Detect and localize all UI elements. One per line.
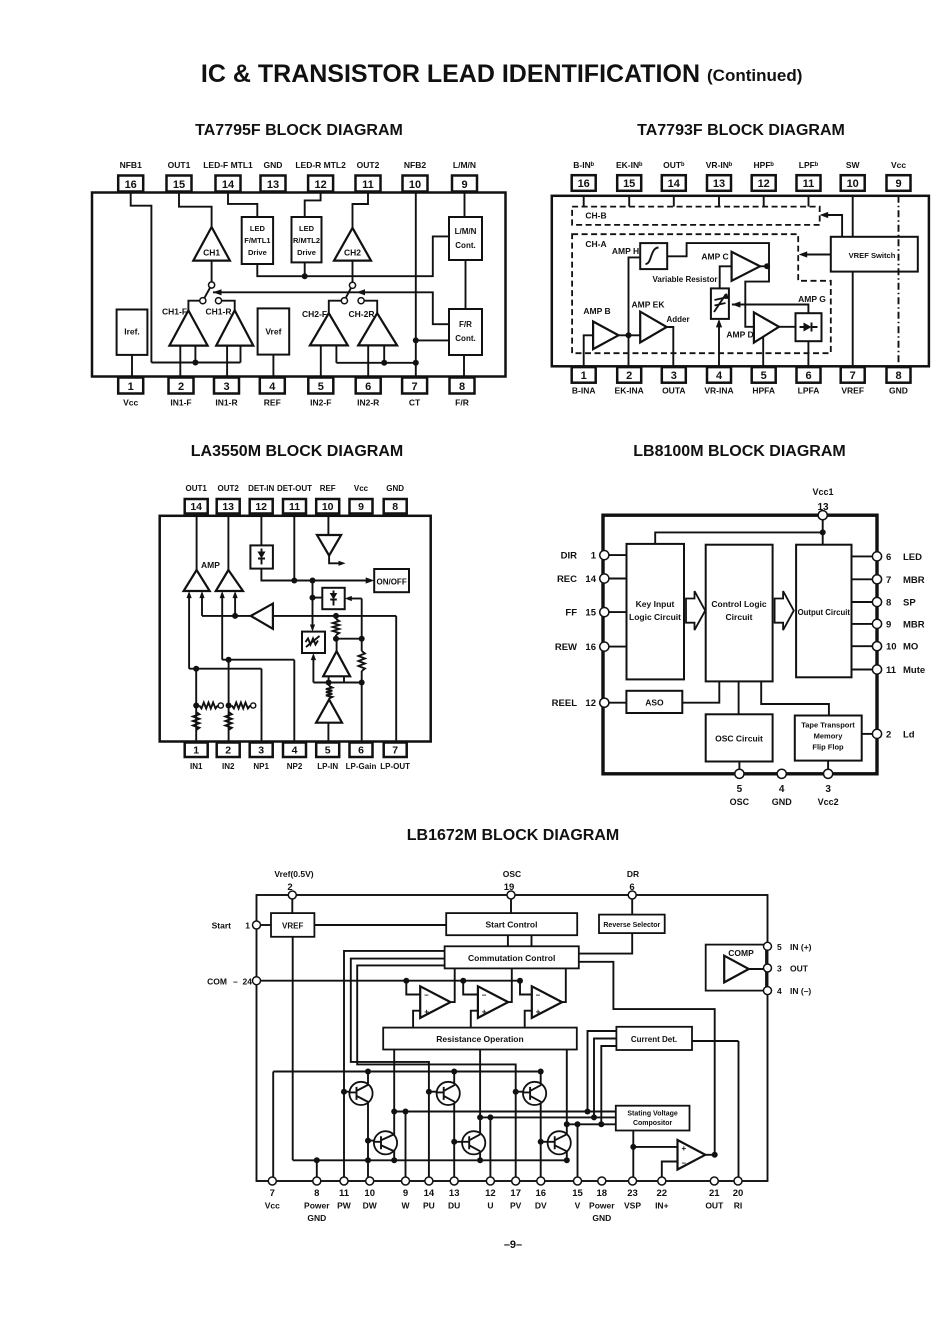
svg-text:CH1-F: CH1-F [162, 307, 187, 317]
svg-text:LED: LED [299, 224, 315, 233]
svg-text:Vcc: Vcc [891, 160, 906, 170]
wire AMP B output to AMP EK [619, 334, 641, 336]
svg-text:OUTA: OUTA [662, 386, 685, 396]
svg-text:Tape Transport: Tape Transport [801, 721, 855, 730]
wire top pin into CH-B [763, 196, 765, 207]
svg-text:OUTᵇ: OUTᵇ [663, 160, 685, 170]
wire CH2-F right input [335, 345, 337, 362]
wire op-amp W output to Commutation [451, 968, 455, 1002]
svg-text:17: 17 [510, 1188, 521, 1199]
svg-text:–: – [482, 991, 487, 1000]
svg-text:VR-INA: VR-INA [704, 386, 733, 396]
svg-text:4: 4 [269, 381, 276, 393]
amplifier AMP C [732, 252, 760, 281]
wire pin4 NP2 column [293, 660, 295, 743]
svg-text:PV: PV [510, 1201, 522, 1211]
svg-text:+: + [482, 1007, 487, 1016]
svg-text:13: 13 [449, 1188, 460, 1199]
svg-text:IN1-F: IN1-F [170, 398, 191, 408]
svg-text:5: 5 [737, 784, 743, 795]
svg-text:LED-F MTL1: LED-F MTL1 [203, 160, 253, 170]
svg-text:FF: FF [565, 608, 577, 619]
block COMP [706, 945, 766, 991]
block Resistance Operation [383, 1028, 577, 1050]
LB8100M right pin 8 SP [852, 601, 878, 603]
wire pin13 to AMP2 [227, 514, 229, 571]
svg-text:Drive: Drive [248, 248, 267, 257]
svg-text:IN2-F: IN2-F [310, 398, 331, 408]
amplifier REF (down) [317, 535, 341, 556]
amplifier CH-2R [358, 313, 397, 345]
pin 12 box [308, 176, 333, 192]
block Tape Transport Memory Flip Flop [795, 716, 862, 761]
wire CH2 to switch [352, 261, 354, 283]
svg-text:IC & TRANSISTOR LEAD IDENTIFIC: IC & TRANSISTOR LEAD IDENTIFICATION [201, 60, 700, 88]
svg-text:Circuit: Circuit [726, 612, 753, 622]
svg-text:Vcc: Vcc [354, 484, 369, 493]
wire switch to CH1-R [222, 301, 235, 311]
LB8100M right pin 11 Mute [852, 669, 878, 671]
svg-text:GND: GND [264, 160, 283, 170]
svg-text:NP1: NP1 [253, 762, 269, 771]
wire pin2 EK-INA and branch up to AMP H [629, 257, 641, 367]
LB1672M bottom pin 21 OUT [710, 1177, 718, 1185]
pin 6 box [797, 367, 821, 383]
pin 11 box [283, 499, 306, 514]
pin 16 box [572, 175, 596, 191]
svg-text:12: 12 [255, 501, 267, 513]
wire COMP output to pin3 [749, 968, 768, 970]
block VREF [271, 913, 314, 937]
pin 2 box [217, 743, 240, 758]
transistor Q5 [462, 1131, 485, 1154]
svg-text:13: 13 [222, 501, 234, 513]
svg-text:Output Circuit: Output Circuit [798, 608, 851, 617]
amplifier CH1-F [169, 310, 207, 345]
wire pin16 NFB1 to feedback rail [131, 193, 152, 363]
svg-text:CH-B: CH-B [585, 211, 606, 221]
svg-text:12: 12 [314, 179, 326, 191]
svg-text:LP-IN: LP-IN [317, 762, 338, 771]
svg-text:DU: DU [448, 1201, 460, 1211]
svg-text:+: + [682, 1144, 687, 1153]
svg-text:15: 15 [572, 1188, 583, 1199]
svg-text:8: 8 [895, 370, 901, 382]
svg-text:1: 1 [591, 551, 597, 562]
svg-text:LP-Gain: LP-Gain [346, 762, 377, 771]
svg-text:1: 1 [245, 921, 250, 931]
svg-text:16: 16 [125, 179, 137, 191]
ground rail [293, 1159, 567, 1161]
svg-text:R/MTL2: R/MTL2 [293, 236, 320, 245]
op-amp phase V [532, 986, 562, 1018]
svg-text:–: – [536, 991, 541, 1000]
svg-text:CH2-F: CH2-F [302, 309, 327, 319]
svg-text:Iref.: Iref. [124, 327, 140, 337]
svg-text:AMP H: AMP H [612, 246, 639, 256]
wire ASO to Control Logic [682, 681, 719, 702]
wire VREF bottom to ground rail [292, 937, 294, 1161]
resistor horizontal R1a [199, 703, 218, 709]
svg-text:4: 4 [777, 986, 782, 996]
resistor horizontal R2a [232, 703, 251, 709]
wire pin2 IN1-F to CH1-F [179, 346, 181, 378]
svg-text:11: 11 [886, 665, 897, 676]
wire pin11 OUT2 to CH2 [353, 193, 369, 228]
svg-text:18: 18 [597, 1188, 608, 1199]
pin 2 box [617, 367, 641, 383]
transistor Q5 emitter [479, 1153, 481, 1161]
svg-text:COMP: COMP [728, 948, 754, 958]
LB1672M bottom pin 17 PV [512, 1177, 520, 1185]
svg-text:12: 12 [485, 1188, 496, 1199]
svg-text:Start: Start [212, 921, 232, 931]
wire Vcc rail down to pin7 Vcc [272, 1072, 274, 1182]
svg-text:10: 10 [409, 179, 421, 191]
wire control chain down to variable resistor [312, 581, 314, 627]
block Reverse Selector [599, 915, 665, 934]
wire CH1 to switch [211, 261, 213, 282]
transistor Q4 [374, 1131, 397, 1154]
wire F/R Cont to pin8 F/R [463, 355, 465, 378]
wire Control Logic to OSC Circuit [738, 681, 740, 714]
svg-text:REF: REF [320, 484, 336, 493]
svg-text:15: 15 [623, 178, 635, 190]
transistor Q1 column (collector/emitter) [367, 1072, 369, 1182]
svg-text:LB8100M BLOCK DIAGRAM: LB8100M BLOCK DIAGRAM [633, 443, 845, 460]
pin 2 box [169, 378, 194, 394]
svg-text:B-INA: B-INA [572, 386, 596, 396]
transistor Q2 column [453, 1072, 455, 1182]
switch SW1 [209, 282, 215, 288]
svg-text:Adder: Adder [666, 315, 689, 324]
wire LED drives common rail to L/M/N Cont [257, 236, 449, 276]
resistor vertical R1b [193, 712, 199, 730]
pin 13 box [707, 175, 731, 191]
CH-B dashed block [572, 207, 820, 225]
wire Resistance Operation to Q4 collector [393, 1050, 395, 1136]
pin 9 box [350, 499, 373, 514]
block Iref [117, 310, 148, 355]
svg-text:IN+: IN+ [655, 1201, 669, 1211]
wire AMP G to pin6 LPFA [807, 341, 809, 367]
riser bus W to Current Det [588, 1031, 617, 1112]
svg-text:22: 22 [657, 1188, 668, 1199]
svg-text:Start Control: Start Control [486, 920, 538, 930]
block LED F/MTL1 Drive [242, 217, 273, 264]
transistor Q4 base wire [368, 1140, 374, 1142]
riser bus V to Current Det [601, 1046, 616, 1124]
LB1672M bottom pin 14 PU [425, 1177, 433, 1185]
wire CT column to F/R Cont [416, 339, 449, 341]
svg-text:CH1: CH1 [203, 248, 220, 258]
pin 6 box [356, 378, 381, 394]
pin 3 box [662, 367, 686, 383]
svg-text:LPFᵇ: LPFᵇ [799, 160, 819, 170]
svg-text:14: 14 [668, 178, 681, 190]
svg-text:Stating Voltage: Stating Voltage [627, 1111, 678, 1118]
pin 14 box [216, 176, 241, 192]
svg-text:MO: MO [903, 642, 918, 653]
wire AMP C output to AMP D input [745, 266, 769, 327]
svg-text:3: 3 [258, 744, 264, 756]
svg-text:10: 10 [886, 642, 897, 653]
svg-text:DIR: DIR [561, 551, 578, 562]
wire pin3 IN1-R to CH1-R [226, 346, 228, 378]
svg-text:OUT: OUT [705, 1201, 724, 1211]
pin 7 box [841, 367, 865, 383]
wire IN2 rail to NP2 [222, 659, 294, 661]
LB8100M right pin 2 Ld [862, 733, 877, 735]
svg-text:Flip Flop: Flip Flop [812, 743, 844, 752]
svg-text:6: 6 [358, 744, 364, 756]
LB8100M bottom pin 3 Vcc2 [827, 761, 829, 774]
svg-text:DET-OUT: DET-OUT [277, 484, 312, 493]
svg-text:LED-R MTL2: LED-R MTL2 [295, 160, 346, 170]
rail y682 [313, 682, 361, 684]
svg-text:HPFA: HPFA [752, 386, 775, 396]
svg-text:AMP D: AMP D [726, 330, 753, 340]
svg-text:8: 8 [886, 598, 891, 609]
svg-text:7: 7 [392, 744, 398, 756]
pin 11 box [797, 175, 821, 191]
amplifier AMP EK [640, 312, 667, 343]
wire pin9 W [405, 1112, 407, 1182]
wire pin2 column with input network [228, 660, 230, 743]
wire CH1-F right input [194, 346, 196, 363]
svg-text:CH-2R: CH-2R [349, 309, 375, 319]
svg-text:LED: LED [903, 552, 922, 563]
svg-text:3: 3 [777, 964, 782, 974]
LB8100M right pin 7 MBR [852, 578, 878, 580]
right pin 3 OUT [764, 964, 772, 972]
wire LP input amp to pin5 LP-IN [327, 723, 329, 743]
pin 1 box [572, 367, 596, 383]
LP input amplifier (up) [316, 700, 342, 723]
wire D1 to ON/OFF rail [261, 569, 371, 581]
svg-text:Memory: Memory [814, 732, 844, 741]
svg-text:2: 2 [626, 370, 632, 382]
pin 10 box [841, 175, 865, 191]
transistor Q3 base wire [516, 1091, 524, 1093]
op-amp phase W [420, 986, 450, 1018]
pin 13 box [217, 499, 240, 514]
svg-text:Power: Power [304, 1201, 330, 1211]
wire pin3 NP1 column [261, 669, 263, 743]
switch control line from F/R Cont [213, 292, 449, 324]
wire Vcc1 to Key Input box [655, 532, 823, 544]
svg-text:13: 13 [713, 178, 725, 190]
pin 7 box [384, 743, 407, 758]
svg-text:15: 15 [585, 608, 596, 619]
wire Reverse Selector to Commutation Control [579, 933, 632, 954]
svg-text:IN1: IN1 [190, 762, 203, 771]
block OSC Circuit [706, 714, 773, 761]
svg-text:VR-INᵇ: VR-INᵇ [706, 160, 733, 170]
svg-text:REF: REF [264, 398, 281, 408]
phase W bus [394, 1111, 616, 1113]
svg-text:NFB1: NFB1 [120, 160, 142, 170]
svg-text:GND: GND [386, 484, 404, 493]
svg-text:11: 11 [289, 501, 300, 513]
svg-text:OSC: OSC [730, 797, 750, 807]
svg-text:Vref: Vref [265, 327, 281, 337]
block F/R Cont [449, 309, 482, 355]
wire pin6 IN2-R to CH-2R [367, 345, 369, 377]
dash line pin9 Vcc to pin8 GND [898, 196, 900, 367]
svg-text:ON/OFF: ON/OFF [376, 578, 406, 587]
LB8100M left pin 15 FF [604, 611, 626, 613]
svg-text:TA7793F BLOCK DIAGRAM: TA7793F BLOCK DIAGRAM [637, 122, 845, 139]
svg-text:Vcc: Vcc [123, 398, 138, 408]
wire CH-2R right input [383, 345, 385, 362]
svg-text:3: 3 [671, 370, 677, 382]
LB1672M bottom pin 11 PW [340, 1177, 348, 1185]
LB1672M bottom pin 15 V [574, 1177, 582, 1185]
wire op-amp U plus to Resistance Operation [471, 1011, 478, 1028]
LB8100M bottom pin 5 OSC [738, 762, 740, 774]
block Control Logic Circuit [706, 545, 773, 682]
right pin 5 IN(+) [764, 942, 772, 950]
svg-text:EK-INA: EK-INA [615, 386, 644, 396]
wire top pin into CH-B [718, 196, 720, 207]
wire pin11 DET-OUT down [293, 514, 295, 581]
svg-text:Vref(0.5V): Vref(0.5V) [274, 869, 313, 879]
wire VREF Switch to CH-B [823, 215, 842, 237]
svg-text:Current Det.: Current Det. [631, 1035, 677, 1044]
LB8100M IC body [603, 515, 877, 774]
svg-text:3: 3 [825, 784, 831, 795]
wire pin14 to LED F/MTL1 Drive [228, 193, 257, 218]
svg-text:Control Logic: Control Logic [711, 599, 767, 609]
svg-text:AMP EK: AMP EK [632, 300, 666, 310]
svg-text:7: 7 [886, 575, 891, 586]
svg-text:VREF: VREF [282, 922, 303, 931]
svg-text:11: 11 [339, 1188, 350, 1199]
wire REF output arrow [329, 556, 342, 564]
LA3550M IC body [160, 516, 431, 742]
pin 15 box [167, 176, 192, 192]
wire pin5 IN2-F to CH2-F [320, 345, 322, 377]
resistor vertical R3 (over buffer rail to mid rail) [335, 616, 337, 619]
svg-text:–: – [682, 1159, 687, 1168]
nested wire Commutation to pin11 PW (phase W base) [344, 951, 445, 1181]
transistor Q5 base wire [454, 1141, 462, 1143]
svg-text:1: 1 [128, 381, 134, 393]
wire LP amp apex up [336, 639, 338, 652]
wire AMP EK output to pin3 OUTA [667, 327, 674, 367]
svg-text:10: 10 [364, 1188, 375, 1199]
svg-text:8: 8 [392, 501, 398, 513]
svg-text:4: 4 [779, 784, 785, 795]
pin 4 box [707, 367, 731, 383]
LB1672M bottom pin 18 Power [598, 1177, 606, 1185]
pin 11 box [356, 176, 381, 192]
svg-text:8: 8 [314, 1188, 319, 1199]
wire COM to op-amp U minus [463, 981, 478, 995]
transistor Q2 [437, 1082, 460, 1105]
pin 10 box [316, 499, 339, 514]
diode block D2 [322, 588, 344, 609]
LB1672M bottom pin 9 W [402, 1177, 410, 1185]
pin 4 box [283, 743, 306, 758]
svg-text:LPFA: LPFA [798, 386, 820, 396]
wire top pin into CH-B [583, 196, 585, 207]
wire LED R/MTL2 Drive output [304, 262, 306, 276]
svg-text:Reverse Selector: Reverse Selector [603, 922, 660, 929]
svg-text:OUT2: OUT2 [357, 160, 380, 170]
svg-text:L/M/N: L/M/N [455, 227, 477, 236]
svg-text:Power: Power [589, 1201, 615, 1211]
svg-text:23: 23 [627, 1188, 638, 1199]
wire Resistance Operation to Q6 collector [566, 1050, 568, 1135]
svg-text:V: V [575, 1201, 581, 1211]
variable resistor block VR [302, 632, 325, 653]
svg-text:7: 7 [412, 381, 418, 393]
svg-text:LP-OUT: LP-OUT [380, 762, 410, 771]
svg-text:2: 2 [886, 729, 891, 740]
svg-text:2: 2 [178, 381, 184, 393]
nested wire Commutation to pin17 PV (phase V base) [357, 965, 516, 1181]
LB1672M bottom pin 16 DV [537, 1177, 545, 1185]
svg-text:9: 9 [886, 619, 891, 630]
wire AMP H output loop to AMP C output [667, 243, 769, 266]
wire pin10 SW to VREF Switch [852, 196, 854, 237]
amplifier AMP2 [216, 570, 243, 591]
svg-text:REC: REC [557, 574, 577, 585]
wire pin4 VR-INA up arrow [718, 324, 720, 368]
wire VREF Switch to pin7 VREF [852, 272, 854, 368]
block Stating Voltage Compositor [616, 1106, 690, 1131]
svg-text:AMP: AMP [201, 560, 220, 570]
svg-text:+: + [424, 1007, 429, 1016]
wire op-amp U output to Commutation [508, 968, 512, 1002]
svg-text:5: 5 [761, 370, 767, 382]
svg-text:Mute: Mute [903, 665, 925, 676]
wire Iref to pin1 Vcc [131, 355, 133, 378]
svg-text:3: 3 [223, 381, 229, 393]
svg-text:ASO: ASO [645, 698, 664, 708]
svg-text:6: 6 [886, 552, 891, 563]
block Start Control [446, 913, 577, 935]
transistor Q4 emitter [393, 1151, 395, 1161]
transistor Q3 [523, 1082, 546, 1105]
wire pin10 REF to buffer [327, 514, 329, 536]
wire Resistance Operation to Q5 collector [479, 1050, 481, 1134]
resistor vertical R2b [225, 712, 231, 730]
transistor Q1 base wire [344, 1091, 350, 1093]
pin 4 box [260, 378, 285, 394]
wire Stating Voltage to pin23 VSP [632, 1131, 634, 1182]
pin 3 box [250, 743, 273, 758]
wires Start Control to Commutation Control [508, 935, 532, 946]
riser bus U to Current Det [594, 1039, 616, 1118]
amplifier AMP D [754, 312, 779, 342]
amplifier CH2 [334, 228, 371, 261]
svg-text:16: 16 [578, 178, 590, 190]
svg-text:21: 21 [709, 1188, 720, 1199]
LB1672M bottom pin 13 DU [450, 1177, 458, 1185]
svg-text:9: 9 [403, 1188, 408, 1199]
pin 14 box [662, 175, 686, 191]
wire comparator output to pin21 OUT [705, 1154, 714, 1156]
svg-text:Drive: Drive [297, 248, 316, 257]
wire switch to CH1-F [188, 301, 199, 311]
wire pin8 Power GND up to ground rail [316, 1160, 318, 1181]
switch SW2 [349, 282, 355, 288]
wire pin12 to detector diode [260, 514, 262, 546]
pin 3 box [214, 378, 239, 394]
